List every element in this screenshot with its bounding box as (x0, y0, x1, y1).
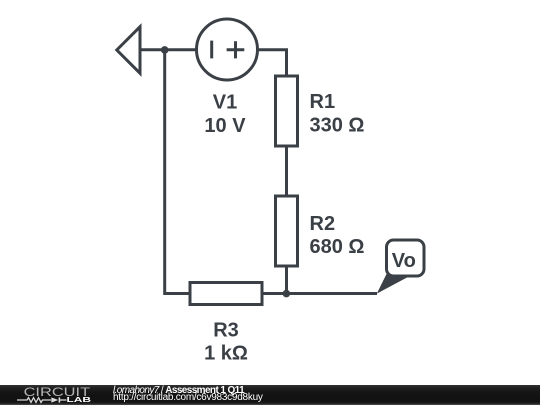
svg-text:R2: R2 (310, 213, 336, 235)
svg-text:LAB: LAB (67, 395, 92, 404)
svg-text:10 V: 10 V (204, 115, 246, 137)
svg-text:V1: V1 (213, 92, 237, 114)
svg-text:R3: R3 (213, 320, 239, 342)
svg-text:680 Ω: 680 Ω (310, 236, 365, 258)
svg-text:1 kΩ: 1 kΩ (204, 342, 248, 364)
svg-text:Vo: Vo (392, 250, 416, 272)
svg-text:R1: R1 (310, 91, 336, 113)
svg-text:330 Ω: 330 Ω (310, 114, 365, 136)
